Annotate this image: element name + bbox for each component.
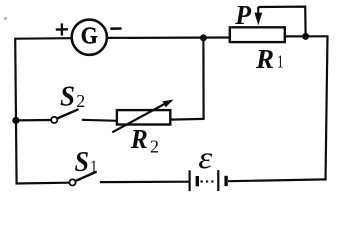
- wire: top-left horizontal (left corner to G): [15, 37, 71, 40]
- wire: left vertical: [15, 38, 16, 185]
- wire: bottom horizontal middle segment (S1 to battery): [100, 181, 189, 184]
- svg-text:P: P: [234, 0, 251, 30]
- rheostat R2 body: [117, 110, 170, 124]
- potentiometer R1 body: [230, 27, 285, 42]
- node B (junction of wiper wire and R1 right terminal): [302, 33, 309, 40]
- svg-text:ε: ε: [198, 139, 212, 175]
- wire: bottom horizontal right segment (battery to right corner): [228, 179, 327, 181]
- wire: R2 right terminal to vertical riser: [170, 118, 204, 121]
- wiper arrow P of R1: [254, 7, 262, 26]
- switch S1: [69, 172, 96, 186]
- wire: wiper top link from arrow to node B: [258, 7, 305, 34]
- label S1: [75, 147, 98, 178]
- wire: bottom horizontal left segment (corner to S1): [16, 182, 70, 185]
- battery dotted link: [201, 180, 217, 182]
- node A (junction of G wire, R1 and R2 branch): [200, 34, 207, 41]
- wire: S2 branch from node C to switch pivot: [16, 119, 51, 122]
- wire: right vertical: [326, 35, 328, 180]
- svg-text:2: 2: [150, 137, 159, 157]
- svg-text:G: G: [81, 22, 98, 49]
- wire: G to junction A and on to R1 left terminal: [107, 36, 230, 39]
- svg-text:R: R: [130, 124, 148, 154]
- label - (G negative terminal): [110, 27, 121, 30]
- wire: switch S2 to R2 left terminal: [82, 120, 118, 121]
- label + (G positive terminal): [56, 23, 68, 35]
- battery short plate 1: [196, 176, 199, 186]
- wire: R1 right terminal to right corner: [285, 35, 328, 37]
- label R2: [130, 124, 159, 157]
- battery long plate 1: [189, 170, 191, 191]
- rheostat R2 arrow: [112, 100, 173, 133]
- battery short plate 2: [224, 176, 227, 186]
- svg-text:S: S: [75, 147, 90, 178]
- svg-text:R: R: [255, 44, 274, 74]
- svg-text:1: 1: [90, 156, 97, 176]
- node C (junction on left vertical for S2 branch): [12, 117, 19, 124]
- svg-text:2: 2: [76, 91, 85, 111]
- label S2: [60, 81, 85, 113]
- battery long plate 2: [217, 170, 219, 191]
- galvanometer G: [72, 20, 107, 55]
- svg-text:S: S: [60, 81, 75, 113]
- label R1: [255, 44, 284, 74]
- battery cell plates: [190, 170, 227, 191]
- wire: vertical riser from R2 branch up to node A: [202, 38, 204, 120]
- svg-text:1: 1: [277, 52, 284, 72]
- switch S2: [51, 109, 78, 123]
